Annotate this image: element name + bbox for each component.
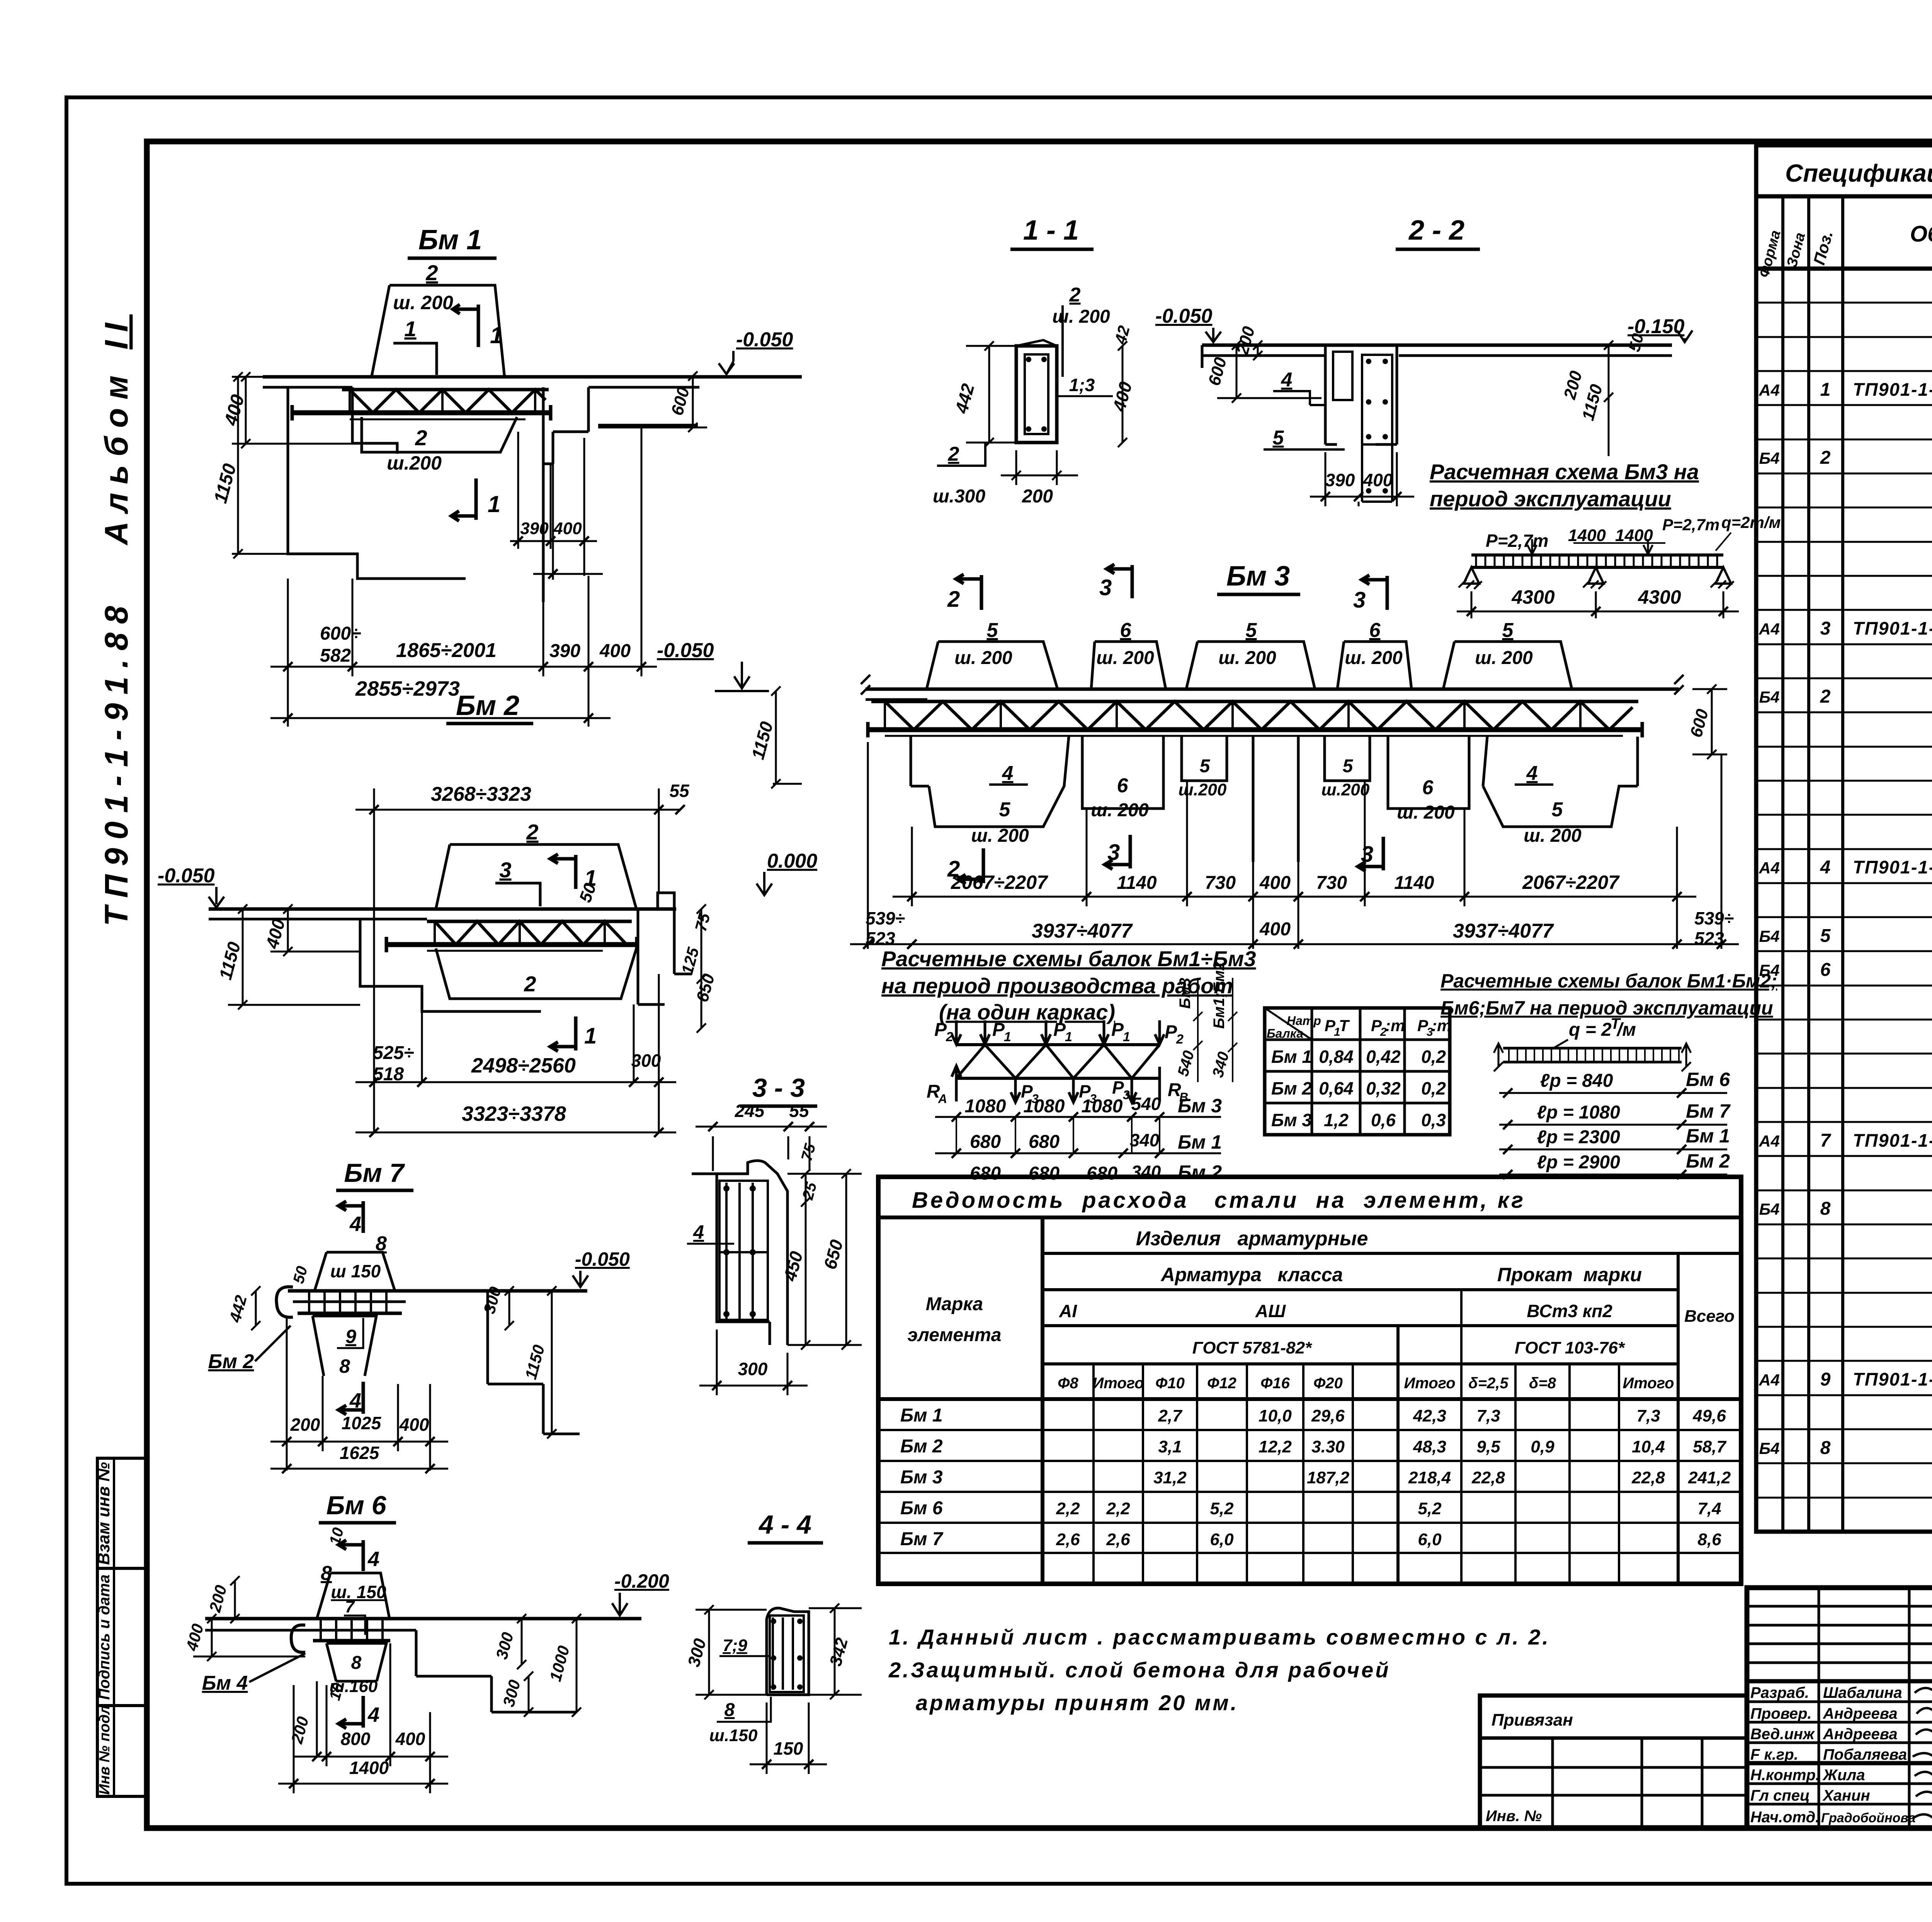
svg-text:3: 3 — [1361, 842, 1373, 867]
svg-text:0.000: 0.000 — [767, 850, 817, 872]
svg-text:0,32: 0,32 — [1366, 1078, 1401, 1098]
svg-text:Р: Р — [992, 1020, 1005, 1040]
Бм6 lower formwork trapezoid — [327, 1643, 386, 1681]
Бм6 bottom dim 1400 — [293, 1685, 295, 1793]
svg-text:Расчетные схемы балок Бм1·Бм2;: Расчетные схемы балок Бм1·Бм2; — [1440, 970, 1777, 992]
svg-text:Марка: Марка — [926, 1294, 983, 1314]
Бм3 section marker 3 bottom left — [1105, 835, 1130, 869]
svg-text:1080: 1080 — [1082, 1096, 1123, 1117]
Бм6 slab band — [205, 1617, 641, 1621]
svg-text:3: 3 — [499, 858, 511, 882]
Бм7 right steps — [488, 1291, 580, 1434]
steel consumption table Ведомость расхода стали — [878, 1177, 1741, 1584]
Бм6 reinforcement ticks — [321, 1619, 383, 1641]
svg-text:Ханин: Ханин — [1822, 1787, 1870, 1804]
svg-text:Ф8: Ф8 — [1058, 1375, 1078, 1392]
svg-text:Ф16: Ф16 — [1260, 1375, 1290, 1392]
svg-text:2: 2 — [415, 426, 427, 450]
svg-text:1: 1 — [1004, 1030, 1011, 1044]
svg-text:22,8: 22,8 — [1631, 1468, 1665, 1487]
Бм7 left curl — [276, 1287, 293, 1317]
specification table Спецификация к балкам — [1756, 145, 1932, 1532]
svg-text:ш. 200: ш. 200 — [1052, 306, 1110, 327]
svg-text:А4: А4 — [1759, 1371, 1780, 1389]
svg-text:10,4: 10,4 — [1632, 1437, 1665, 1456]
svg-text:5: 5 — [987, 619, 998, 642]
svg-text:3.30: 3.30 — [1311, 1437, 1345, 1456]
Бм3 left vertical dim 1150 — [771, 686, 781, 788]
Бм1 section marker 1 bottom — [451, 478, 476, 521]
4-4 section outline — [767, 1608, 809, 1695]
svg-text:1: 1 — [490, 322, 503, 348]
svg-text:300: 300 — [631, 1050, 661, 1071]
Бм1 section marker 1 top — [453, 305, 478, 347]
svg-text:400: 400 — [599, 641, 631, 661]
4-4 dim 150 — [767, 1702, 809, 1774]
svg-text:1140: 1140 — [1117, 873, 1157, 893]
svg-text:0,3: 0,3 — [1421, 1110, 1446, 1130]
svg-text:1140: 1140 — [1394, 873, 1434, 893]
svg-text:Андреева: Андреева — [1823, 1705, 1898, 1722]
svg-text:Расчетная схема Бм3 на: Расчетная схема Бм3 на — [1430, 460, 1699, 484]
svg-text:Бм 2: Бм 2 — [1686, 1150, 1730, 1172]
svg-text:Т: Т — [1339, 1016, 1350, 1035]
svg-text:390: 390 — [1325, 470, 1355, 490]
left margin stamp box Подпись и дата — [96, 1568, 146, 1706]
svg-text:5: 5 — [1552, 798, 1563, 821]
svg-text:1: 1 — [1065, 1030, 1072, 1044]
svg-text:400: 400 — [399, 1415, 429, 1435]
svg-text:2: 2 — [947, 587, 960, 612]
svg-text:-0.050: -0.050 — [1155, 305, 1213, 327]
Бм2 bottom dims 525÷518 2498÷2560 300 — [374, 909, 659, 1132]
svg-text:3: 3 — [1820, 618, 1831, 639]
svg-text:Р: Р — [1165, 1022, 1177, 1042]
truss diagonals — [956, 1045, 1160, 1078]
span ladder lp rows — [1499, 1069, 1731, 1179]
svg-text:2.Защитный. слой бетона для: 2.Защитный. слой бетона для рабочей — [888, 1658, 1390, 1682]
svg-text:1: 1 — [1123, 1030, 1130, 1044]
svg-text:Бм 2: Бм 2 — [1178, 1161, 1222, 1183]
Бм1 right support column — [543, 387, 588, 602]
Бм3 right dim 600 — [1707, 684, 1716, 759]
svg-text:3937÷4077: 3937÷4077 — [1032, 920, 1133, 942]
svg-text:Бм 2: Бм 2 — [900, 1436, 943, 1457]
svg-text:730: 730 — [1205, 873, 1236, 893]
svg-text:518: 518 — [373, 1064, 404, 1084]
svg-text:2: 2 — [1069, 284, 1081, 306]
svg-text:0,2: 0,2 — [1421, 1047, 1446, 1067]
P3 arrows below bottom chord — [1011, 1078, 1020, 1102]
svg-text:Обозначение: Обозначение — [1910, 221, 1932, 247]
svg-text::т: :т — [1432, 1016, 1451, 1035]
Бм2 left vertical dims 400 1150 — [283, 904, 293, 956]
svg-text:5: 5 — [999, 798, 1011, 821]
svg-text:Всего: Всего — [1684, 1307, 1735, 1326]
svg-text:Б4: Б4 — [1759, 449, 1779, 467]
section 2-2 — [1155, 215, 1692, 506]
svg-text:Градобойнова: Градобойнова — [1821, 1811, 1915, 1825]
svg-text:55: 55 — [789, 1101, 810, 1121]
svg-text:ш.300: ш.300 — [933, 486, 985, 507]
Бм3 dimension row 1 — [912, 781, 1677, 949]
svg-text:/м: /м — [1616, 1020, 1636, 1040]
Бм1 left support step outline — [288, 387, 466, 579]
svg-text:2067÷2207: 2067÷2207 — [1522, 872, 1620, 893]
dim row Бм3 — [935, 1116, 1221, 1118]
svg-text:ТП901-1-9 88-КЖИ1-С5: ТП901-1-9 88-КЖИ1-С5 — [1853, 618, 1932, 638]
svg-text:Бм 3: Бм 3 — [1178, 1095, 1222, 1117]
svg-text:Инв № подл: Инв № подл — [97, 1705, 113, 1794]
svg-text:6: 6 — [1820, 960, 1831, 980]
title block stamp — [1747, 1588, 1932, 1828]
3-3 reinforcement cage — [719, 1181, 768, 1320]
svg-text:ш. 200: ш. 200 — [1096, 648, 1154, 668]
svg-text:q = 2: q = 2 — [1569, 1020, 1612, 1040]
svg-text:8: 8 — [351, 1653, 362, 1673]
svg-text:ТП901-1-9 88-КЖИ1-С6: ТП901-1-9 88-КЖИ1-С6 — [1853, 857, 1932, 877]
Бм3 truss top chord — [871, 700, 1638, 703]
svg-text:АI: АI — [1059, 1301, 1077, 1321]
svg-text:187,2: 187,2 — [1307, 1468, 1350, 1487]
svg-text:Шабалина: Шабалина — [1823, 1684, 1902, 1701]
Бм1 vertical dimension 1150 — [233, 372, 243, 558]
svg-text:Побаляева: Побаляева — [1823, 1746, 1907, 1763]
svg-text:6: 6 — [1117, 775, 1129, 797]
svg-text:390: 390 — [549, 641, 580, 661]
svg-text:5: 5 — [1246, 619, 1257, 642]
svg-text:А: А — [938, 1092, 947, 1106]
svg-text:Арматура класса: Арматура класса — [1160, 1264, 1343, 1285]
svg-text:Р=2,7т: Р=2,7т — [1662, 516, 1719, 534]
svg-text:Бм 2: Бм 2 — [208, 1350, 254, 1373]
svg-text:7,4: 7,4 — [1697, 1499, 1721, 1518]
svg-text:Итого: Итого — [1622, 1375, 1674, 1392]
svg-text:400: 400 — [1259, 873, 1291, 893]
Бм7 upper formwork trapezoid — [315, 1252, 395, 1291]
load diagram truss — [927, 962, 1237, 1184]
svg-text:58,7: 58,7 — [1693, 1437, 1727, 1456]
Бм3 section marker 3 top left — [1107, 564, 1132, 598]
svg-text:ш. 200: ш. 200 — [1475, 648, 1533, 668]
svg-text:ℓр = 2300: ℓр = 2300 — [1537, 1127, 1620, 1147]
svg-text:Балка: Балка — [1267, 1027, 1303, 1040]
svg-text:1;3: 1;3 — [1069, 375, 1095, 395]
svg-text:525÷: 525÷ — [373, 1043, 414, 1063]
svg-text:10,0: 10,0 — [1259, 1406, 1292, 1425]
svg-text:2,6: 2,6 — [1056, 1530, 1080, 1549]
svg-text:150: 150 — [774, 1738, 803, 1759]
Бм2 slab band — [209, 907, 676, 911]
Бм3 middle support gap — [1253, 737, 1298, 862]
svg-text:241,2: 241,2 — [1688, 1468, 1731, 1487]
svg-text::т: :т — [1385, 1016, 1405, 1035]
svg-text:Бм 2: Бм 2 — [456, 690, 519, 721]
svg-text:4: 4 — [1002, 762, 1014, 785]
svg-text:730: 730 — [1316, 873, 1347, 893]
Бм2 right corbel — [638, 907, 692, 1004]
svg-text:элемента: элемента — [908, 1325, 1002, 1345]
svg-text:ш. 200: ш. 200 — [393, 292, 453, 313]
Бм3 upper formwork trapezoid 1 — [927, 642, 1058, 689]
svg-text:8: 8 — [339, 1355, 350, 1377]
svg-text:5: 5 — [1343, 756, 1354, 776]
svg-text:ш.200: ш.200 — [1321, 780, 1370, 799]
svg-text:2: 2 — [526, 820, 538, 844]
svg-text:1080: 1080 — [965, 1096, 1006, 1117]
svg-text:ш. 200: ш. 200 — [1524, 826, 1582, 846]
svg-text:6,0: 6,0 — [1210, 1530, 1234, 1549]
svg-text:400: 400 — [553, 519, 582, 538]
svg-text:4300: 4300 — [1511, 586, 1554, 608]
svg-text:49,6: 49,6 — [1692, 1406, 1726, 1425]
Бм2 top dimension 3268÷3323 55 — [374, 788, 659, 909]
svg-text:ГОСТ 103-76*: ГОСТ 103-76* — [1515, 1338, 1625, 1357]
svg-text:4: 4 — [349, 1212, 361, 1236]
svg-text:А4: А4 — [1759, 1132, 1780, 1150]
svg-text:5: 5 — [1820, 926, 1831, 946]
Бм1 lower formwork trapezoid — [362, 417, 517, 452]
svg-text:1: 1 — [1820, 380, 1831, 400]
svg-text:ш. 200: ш. 200 — [971, 826, 1029, 846]
Бм6 right steps — [416, 1630, 576, 1712]
2-2 vertical member — [1325, 345, 1397, 444]
svg-text:Бм 6: Бм 6 — [900, 1498, 943, 1519]
svg-text:Спецификация к балкам Бм1÷Бм: Спецификация к балкам Бм1÷Бм3;Бм6;Бм7. — [1785, 159, 1932, 187]
svg-text:0,84: 0,84 — [1319, 1047, 1354, 1067]
section 4-4 — [684, 1510, 862, 1774]
svg-text:8,6: 8,6 — [1697, 1530, 1721, 1549]
svg-text:2 - 2: 2 - 2 — [1408, 215, 1464, 246]
svg-text:2: 2 — [524, 972, 536, 996]
svg-text:245: 245 — [735, 1101, 765, 1121]
Бм1 truss diagonals — [350, 390, 546, 413]
svg-text:3: 3 — [1107, 840, 1120, 865]
1-1 cross-section rectangle — [1016, 346, 1057, 443]
svg-text:4: 4 — [1820, 857, 1831, 878]
svg-text:Н.контр.: Н.контр. — [1750, 1767, 1820, 1784]
svg-text:ш. 200: ш. 200 — [1091, 800, 1149, 821]
svg-text:Бм 4: Бм 4 — [202, 1672, 248, 1694]
section 3-3 — [687, 1073, 862, 1395]
Бм2 left support steps — [360, 919, 541, 1011]
svg-text:4: 4 — [1526, 762, 1538, 785]
svg-text:Гл спец: Гл спец — [1750, 1787, 1810, 1804]
beam drawing Бм6 — [182, 1491, 669, 1793]
Бм7 slab band — [288, 1289, 587, 1293]
svg-text:Р: Р — [1112, 1078, 1124, 1098]
svg-text:1. Данный лист . рассматриват: 1. Данный лист . рассматривать совместно… — [889, 1625, 1550, 1649]
svg-text:6: 6 — [1369, 619, 1381, 642]
load arrows P2 P1 P1 P1 P2 — [952, 1020, 961, 1044]
scheme beam hatched — [1471, 553, 1723, 557]
svg-text:ш. 200: ш. 200 — [1345, 648, 1403, 668]
svg-text:Б4: Б4 — [1759, 927, 1779, 945]
svg-text:400: 400 — [395, 1729, 425, 1749]
svg-text:ш.200: ш.200 — [1179, 780, 1227, 799]
Бм3 slab band — [866, 688, 1679, 691]
svg-text:Бм6;Бм7 на период эксплуатации: Бм6;Бм7 на период эксплуатации — [1440, 997, 1773, 1019]
svg-text:-0.050: -0.050 — [575, 1248, 630, 1270]
svg-text:Разраб.: Разраб. — [1750, 1684, 1809, 1701]
Бм1 truss bottom chord — [292, 410, 551, 415]
svg-text:1: 1 — [404, 317, 416, 341]
svg-text:ℓр = 840: ℓр = 840 — [1540, 1071, 1613, 1091]
svg-text:-0.050: -0.050 — [158, 865, 215, 887]
Бм1 slab band — [263, 375, 802, 379]
svg-text:F к.гр.: F к.гр. — [1750, 1746, 1798, 1763]
Бм3 section marker 2 bottom — [958, 848, 983, 884]
svg-text:31,2: 31,2 — [1153, 1468, 1187, 1487]
svg-text:340: 340 — [1131, 1162, 1161, 1182]
svg-text:-0.050: -0.050 — [736, 329, 793, 351]
section 1-1 — [933, 215, 1136, 507]
svg-text:1,2: 1,2 — [1324, 1110, 1349, 1130]
svg-text:арматуры принят 20 мм.: арматуры принят 20 мм. — [916, 1690, 1238, 1715]
Бм7 section marker 4 top — [338, 1201, 363, 1233]
Бм3 upper formwork trapezoid 2 — [1091, 642, 1166, 689]
svg-text:680: 680 — [1029, 1132, 1060, 1152]
svg-text:3: 3 — [1353, 587, 1366, 613]
1-1 dim 442 — [985, 341, 994, 447]
svg-text:Ф12: Ф12 — [1207, 1375, 1236, 1392]
Бм1 pier dims 390 400 — [518, 432, 584, 576]
svg-text:2,2: 2,2 — [1106, 1499, 1130, 1518]
svg-text:680: 680 — [970, 1132, 1001, 1152]
svg-text:3937÷4077: 3937÷4077 — [1453, 920, 1554, 942]
svg-text:7,3: 7,3 — [1636, 1406, 1660, 1425]
svg-text:Бм 1: Бм 1 — [1271, 1047, 1312, 1067]
svg-text:(на один каркас): (на один каркас) — [939, 1000, 1115, 1024]
svg-text:2067÷2207: 2067÷2207 — [951, 872, 1048, 893]
svg-text:Ведомость расхода стали на: Ведомость расхода стали на элемент, кг — [912, 1188, 1526, 1213]
svg-text:523: 523 — [1694, 928, 1724, 948]
svg-text:3,1: 3,1 — [1158, 1437, 1182, 1456]
svg-text:ТП901-1-9 88-КЖИ1-С4: ТП901-1-9 88-КЖИ1-С4 — [1853, 379, 1932, 400]
reaction labels — [952, 1066, 961, 1101]
svg-text:48,3: 48,3 — [1413, 1437, 1446, 1456]
svg-text:1400: 1400 — [1568, 526, 1606, 545]
load table П table — [1265, 1008, 1451, 1135]
svg-text:Бм3: Бм3 — [1177, 978, 1194, 1009]
svg-text:0,42: 0,42 — [1366, 1047, 1401, 1067]
svg-text:1080: 1080 — [1024, 1096, 1065, 1117]
svg-text:1625: 1625 — [340, 1443, 380, 1463]
Бм6 upper formwork trapezoid — [317, 1573, 389, 1619]
Бм3 truss diagonals — [885, 701, 1633, 730]
svg-text:2855÷2973: 2855÷2973 — [355, 677, 460, 700]
svg-text:Б4: Б4 — [1759, 1439, 1779, 1457]
svg-text:Бм 6: Бм 6 — [1686, 1069, 1730, 1090]
Бм2 section marker 1 top — [550, 854, 576, 889]
svg-text:Б4: Б4 — [1759, 688, 1779, 706]
svg-text:Бм 1: Бм 1 — [418, 225, 482, 255]
Бм3 upper formwork trapezoid 4 — [1337, 642, 1412, 689]
svg-text:300: 300 — [738, 1359, 768, 1379]
Бм3 section marker 3 top right — [1362, 575, 1387, 610]
svg-text:3: 3 — [1123, 1088, 1130, 1102]
svg-text:680: 680 — [1029, 1163, 1060, 1184]
svg-text:1400: 1400 — [349, 1758, 389, 1778]
svg-text:ш 150: ш 150 — [330, 1261, 381, 1281]
svg-text:3323÷3378: 3323÷3378 — [462, 1102, 566, 1125]
truss chords — [956, 1043, 1160, 1046]
svg-text:0,64: 0,64 — [1319, 1078, 1354, 1098]
svg-text:ℓр = 2900: ℓр = 2900 — [1537, 1152, 1620, 1173]
svg-text:539÷: 539÷ — [866, 908, 905, 928]
2-2 dims 390 400 bottom — [1325, 452, 1397, 506]
svg-text:4300: 4300 — [1638, 586, 1681, 608]
svg-text:ш. 200: ш. 200 — [954, 648, 1012, 668]
svg-text:Бм 6: Бм 6 — [326, 1491, 386, 1520]
svg-text:1: 1 — [488, 491, 500, 517]
svg-text:0,9: 0,9 — [1531, 1437, 1554, 1456]
svg-text:Расчетные схемы балок Бм1÷Бм3: Расчетные схемы балок Бм1÷Бм3 — [881, 947, 1256, 971]
svg-text:Б4: Б4 — [1759, 1200, 1779, 1218]
Бм1 bottom dimension row 600÷582 1865÷2001 390 400 — [288, 427, 641, 727]
svg-text:3: 3 — [1099, 575, 1112, 600]
Бм3 dimension row 2 — [868, 742, 1721, 949]
svg-text:5,2: 5,2 — [1418, 1499, 1442, 1518]
svg-text:δ=2,5: δ=2,5 — [1468, 1375, 1509, 1392]
svg-text:2: 2 — [425, 260, 438, 285]
svg-text:ш. 200: ш. 200 — [1397, 802, 1455, 823]
svg-text:Прокат марки: Прокат марки — [1497, 1264, 1642, 1285]
svg-text:Натр: Натр — [1287, 1014, 1321, 1028]
svg-text:Бм 7: Бм 7 — [344, 1158, 405, 1188]
Бм2 section marker 1 bottom — [550, 1016, 576, 1051]
svg-text:6,0: 6,0 — [1418, 1530, 1442, 1549]
svg-text:4 - 4: 4 - 4 — [758, 1510, 811, 1539]
3-3 bottom dim 300 — [717, 1330, 787, 1395]
svg-text:Бм 3: Бм 3 — [900, 1467, 943, 1488]
svg-text:200: 200 — [1022, 486, 1053, 507]
svg-text:ТП901-1-9 .88-КЖИ1-С8: ТП901-1-9 .88-КЖИ1-С8 — [1853, 1369, 1932, 1389]
svg-text:Жила: Жила — [1822, 1767, 1865, 1784]
svg-text:Провер.: Провер. — [1750, 1705, 1812, 1722]
svg-text:Бм 7: Бм 7 — [900, 1529, 944, 1549]
svg-text:-0.050: -0.050 — [657, 639, 714, 662]
svg-text:680: 680 — [970, 1163, 1001, 1184]
Бм3 upper formwork trapezoid 3 — [1186, 642, 1315, 689]
svg-text:582: 582 — [320, 645, 351, 666]
svg-text:7: 7 — [1820, 1130, 1832, 1151]
heading Расчетные схемы балок Бм1·Бм2 Бм6 Бм7 — [1440, 970, 1777, 1019]
Бм2 bottom dim 3323÷3378 — [355, 1132, 676, 1134]
svg-text:Привязан: Привязан — [1492, 1711, 1573, 1730]
svg-text:4: 4 — [1281, 369, 1293, 391]
Бм3 lower formwork big right — [1483, 737, 1638, 827]
svg-text:А4: А4 — [1759, 381, 1780, 399]
svg-text:ш. 150: ш. 150 — [331, 1582, 386, 1602]
svg-text:600÷: 600÷ — [320, 623, 361, 644]
svg-text:7,3: 7,3 — [1476, 1406, 1500, 1425]
svg-text:9: 9 — [1820, 1369, 1831, 1390]
svg-text:0,6: 0,6 — [1371, 1110, 1396, 1130]
svg-text:5,2: 5,2 — [1210, 1499, 1234, 1518]
beam drawing Бм3 — [657, 561, 1739, 949]
svg-text:42,3: 42,3 — [1413, 1406, 1446, 1425]
svg-text:400: 400 — [1363, 470, 1393, 490]
svg-text:Бм1;Бм2: Бм1;Бм2 — [1211, 962, 1228, 1029]
svg-text:Р: Р — [1111, 1020, 1124, 1040]
svg-text:400: 400 — [1259, 919, 1291, 940]
svg-text:539÷: 539÷ — [1694, 908, 1734, 928]
svg-text:540: 540 — [1131, 1094, 1161, 1114]
beam drawing Бм1 — [210, 225, 802, 727]
svg-text:200: 200 — [290, 1415, 320, 1435]
Бм6 left curl — [291, 1625, 305, 1653]
